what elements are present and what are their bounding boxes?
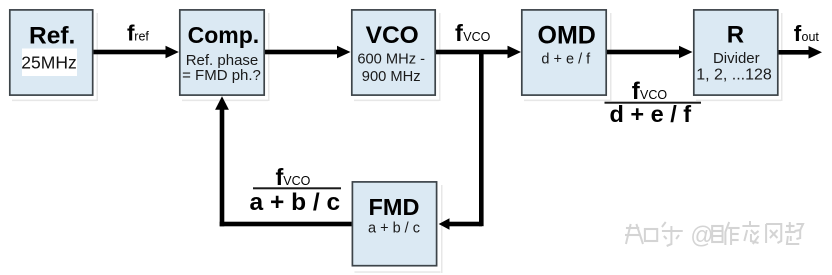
FMD shadow <box>355 271 441 273</box>
label fvco top <box>455 20 491 46</box>
wire FMD to left <box>220 222 352 227</box>
svg-text:FMD: FMD <box>369 194 420 220</box>
svg-text:VCO: VCO <box>366 22 419 49</box>
block R <box>694 10 778 95</box>
wire Ref to Comp <box>93 50 167 55</box>
svg-text:a + b / c: a + b / c <box>250 189 341 216</box>
R shadow <box>696 100 781 102</box>
svg-text:ref: ref <box>134 29 149 43</box>
svg-text:OMD: OMD <box>538 22 596 50</box>
svg-text:VCO: VCO <box>640 88 667 102</box>
svg-text:600 MHz -: 600 MHz - <box>357 52 425 68</box>
hanzi ye <box>742 221 759 244</box>
svg-text:d + e / f: d + e / f <box>609 101 691 127</box>
node junction on VCO-OMD wire, vertical drop <box>479 52 484 226</box>
arrowhead into OMD <box>508 46 522 59</box>
block VCO <box>352 10 435 95</box>
hanzi hu <box>662 222 683 246</box>
svg-text:R: R <box>727 22 744 49</box>
svg-text:1, 2, ...128: 1, 2, ...128 <box>696 67 772 84</box>
svg-text:out: out <box>802 30 820 44</box>
arrowhead into FMD right side <box>439 218 450 229</box>
VCO shadow <box>354 100 439 102</box>
svg-text:f: f <box>276 164 284 190</box>
block Comp <box>180 10 264 95</box>
hanzi zhi <box>625 224 657 244</box>
svg-text:@: @ <box>690 221 713 248</box>
arrowhead into R <box>679 46 693 59</box>
svg-text:25MHz: 25MHz <box>21 53 76 73</box>
svg-text:VCO: VCO <box>283 174 310 188</box>
hanzi zuo <box>712 222 739 245</box>
svg-text:900 MHz: 900 MHz <box>362 69 421 85</box>
block Ref <box>10 10 93 95</box>
block FMD <box>352 182 436 266</box>
svg-text:d + e / f: d + e / f <box>541 52 591 68</box>
svg-text:a + b / c: a + b / c <box>368 221 420 237</box>
watermark zhihu text drawn as vector strokes <box>625 221 803 248</box>
label fout <box>794 21 820 46</box>
wire VCO to OMD <box>436 50 510 55</box>
svg-text:Divider: Divider <box>713 50 760 67</box>
hanzi qi <box>785 222 803 244</box>
svg-text:VCO: VCO <box>463 30 490 44</box>
label fref <box>127 20 149 45</box>
hanzi feng <box>766 224 781 243</box>
arrowhead into Comp bottom <box>215 96 229 110</box>
wire up to Comp <box>220 108 225 226</box>
wire Comp to VCO <box>265 50 338 55</box>
arrowhead into VCO <box>337 46 351 59</box>
svg-text:Comp.: Comp. <box>188 22 260 48</box>
wire junction down to FMD <box>449 222 482 227</box>
Comp shadow <box>182 100 268 102</box>
Ref shadow <box>12 100 97 102</box>
wire OMD to R <box>607 50 681 55</box>
label fraction fvco over a+b/c <box>250 164 341 216</box>
arrowhead into Comp <box>166 46 179 59</box>
arrowhead output <box>809 46 823 59</box>
OMD shadow <box>524 100 610 102</box>
svg-text:f: f <box>455 20 463 46</box>
svg-text:= FMD ph.?: = FMD ph.? <box>182 67 261 84</box>
svg-text:Ref.: Ref. <box>29 23 75 50</box>
label fraction fvco over d+e/f <box>605 78 702 127</box>
wire R to output <box>778 50 810 55</box>
block OMD <box>522 10 606 95</box>
